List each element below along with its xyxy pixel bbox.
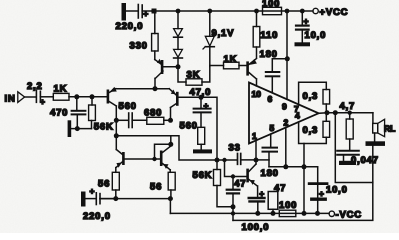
node base loop <box>152 157 156 161</box>
node Q6 collector <box>168 142 173 147</box>
resistor 680 <box>147 117 171 124</box>
svg-text:+: + <box>204 101 209 111</box>
svg-text:3K: 3K <box>187 70 201 81</box>
wire Q4 collector down <box>170 108 172 121</box>
node Q4 base <box>199 95 204 100</box>
svg-text:IN: IN <box>5 94 16 105</box>
svg-text:1: 1 <box>252 131 257 141</box>
capacitor 47 left <box>227 177 240 207</box>
node input 56K <box>90 94 95 99</box>
resistor 110 <box>253 13 260 58</box>
node x304 bus <box>302 211 307 216</box>
capacitor 560 series <box>116 113 147 128</box>
node output 0,3 <box>325 110 330 115</box>
svg-text:2,2: 2,2 <box>27 81 43 92</box>
svg-text:10,0: 10,0 <box>326 185 348 196</box>
wire pin2 node line <box>269 166 318 168</box>
svg-text:10: 10 <box>252 89 262 99</box>
wire output-emitter node <box>100 198 170 200</box>
resistor 56K middle <box>214 160 234 207</box>
svg-text:56K: 56K <box>193 170 213 181</box>
bus -VCC <box>170 212 329 214</box>
node 470 ground <box>75 126 80 131</box>
svg-text:0,3: 0,3 <box>303 125 319 136</box>
diode D2 <box>174 49 183 66</box>
svg-text:1K: 1K <box>54 84 68 95</box>
wire y136 line <box>116 136 217 160</box>
capacitor 2,2 <box>36 91 53 107</box>
capacitor C1 220,0 top-left <box>126 5 152 19</box>
capacitor 10,0 top-right <box>296 14 309 43</box>
op-amp U1 K174UN7 triangle <box>249 83 319 144</box>
transistor Q4 input pair right <box>169 89 201 108</box>
node top rail x302 <box>300 9 305 14</box>
svg-text:0,3: 0,3 <box>303 91 319 102</box>
node feedback X <box>215 158 220 163</box>
capacitor 10,0 bottom right <box>309 167 327 214</box>
resistor 47 right <box>268 192 278 214</box>
svg-text:180: 180 <box>260 49 278 60</box>
wire tail line <box>116 88 169 90</box>
node y136 left <box>114 133 119 138</box>
node output x335.5 <box>333 110 338 115</box>
transistor Q6 output right <box>160 146 171 172</box>
svg-text:330: 330 <box>130 41 148 52</box>
ground (under 10,0 top) <box>295 42 311 46</box>
svg-text:+: + <box>259 189 264 199</box>
svg-text:56: 56 <box>150 182 162 193</box>
resistor 4,7 <box>346 113 353 150</box>
node top rail x154 <box>152 9 157 14</box>
svg-text:100: 100 <box>262 0 280 10</box>
wire Q3 collector vertical <box>115 106 117 150</box>
node 560/680 left <box>114 118 119 123</box>
node top rail x256.5 <box>254 9 259 14</box>
resistor 100 top <box>263 7 282 14</box>
svg-text:470: 470 <box>50 108 68 119</box>
resistor 56 left <box>112 172 119 198</box>
node bus crossing <box>231 211 235 215</box>
node pin2 <box>283 164 288 169</box>
wire pin9 vertical <box>286 13 288 99</box>
svg-text:RL: RL <box>384 124 395 134</box>
resistor 330 <box>152 13 159 60</box>
wire top rail <box>152 10 313 12</box>
node 56L bottom <box>113 196 118 201</box>
speaker RL <box>373 113 385 142</box>
svg-text:2: 2 <box>284 118 289 128</box>
capacitor 0,047 <box>337 151 359 161</box>
capacitor 220,0 bottom <box>86 186 116 205</box>
transistor Q2 driver <box>246 59 257 86</box>
resistor 56K left <box>89 97 96 129</box>
svg-text:56: 56 <box>98 179 110 190</box>
wire node to bus corner <box>169 199 171 214</box>
svg-text:47: 47 <box>274 183 286 194</box>
node y160 x224.5 <box>222 158 226 162</box>
node tail T1 <box>153 86 158 91</box>
ground (under 0,047) <box>339 161 356 165</box>
capacitor 100,0 <box>249 189 265 214</box>
svg-text:100: 100 <box>279 200 297 211</box>
svg-text:+: + <box>143 9 148 19</box>
svg-text:220,0: 220,0 <box>116 21 144 32</box>
wire pin1/Q7 to pin5 node <box>256 159 269 161</box>
resistor 1K (to Q4) <box>210 62 247 69</box>
ground (under 560) <box>193 149 212 153</box>
resistor 56 right <box>168 172 175 198</box>
wire output to speaker-return jog <box>335 113 373 183</box>
node top rail x287 <box>285 9 290 14</box>
wire Q4 base to feedback node <box>201 97 217 160</box>
svg-text:+: + <box>304 16 309 26</box>
transistor Q1 PNP (330 leg) <box>155 59 178 89</box>
svg-text:4,7: 4,7 <box>340 101 356 112</box>
svg-text:33: 33 <box>229 142 241 153</box>
terminal +VCC <box>313 8 318 13</box>
capacitor 47,0 <box>194 97 211 127</box>
node 56R bottom <box>168 196 173 201</box>
svg-text:+: + <box>90 186 95 196</box>
wire ground link <box>71 128 91 130</box>
pin 4 loop wire + resistor 0,3 bottom <box>299 113 330 144</box>
wire pin2 lead <box>285 127 287 166</box>
wire Q6 base loop <box>155 144 171 159</box>
capacitor 470 <box>72 97 86 129</box>
node 47L tap <box>231 174 235 178</box>
node top rail x178 <box>176 9 181 14</box>
wire Q6 collector branch <box>170 136 172 145</box>
ground (left bar of C1) <box>122 3 127 21</box>
svg-text:1K: 1K <box>224 54 238 65</box>
wire output line <box>319 112 373 115</box>
svg-text:+: + <box>319 189 324 199</box>
pin 7 loop wire + resistor 0,3 top <box>299 82 330 112</box>
wire L to Q7 base <box>225 160 247 177</box>
capacitor 180 top (compensation) <box>266 59 288 93</box>
node diode bottom <box>176 64 181 69</box>
svg-text:47,0: 47,0 <box>190 87 212 98</box>
svg-text:5: 5 <box>270 123 275 133</box>
input terminal IN <box>18 92 36 103</box>
bar under speaker <box>366 141 386 146</box>
svg-text:10,0: 10,0 <box>305 30 327 41</box>
svg-text:9,1V: 9,1V <box>212 28 235 39</box>
svg-text:100,0: 100,0 <box>242 222 270 233</box>
svg-text:180: 180 <box>261 168 279 179</box>
node 47R bus <box>271 211 276 216</box>
wire 47L node to bus and lower line <box>232 207 234 221</box>
svg-text:220,0: 220,0 <box>83 211 111 222</box>
node 10,0 bus <box>315 211 320 216</box>
capacitor 33 <box>218 154 256 165</box>
transistor Q7 <box>246 160 257 197</box>
svg-text:4: 4 <box>295 111 300 121</box>
transistor Q3 input pair left <box>107 87 117 106</box>
transistor Q5 output left <box>116 150 161 173</box>
resistor 3K loop <box>178 67 210 86</box>
node top rail x209.8 <box>207 9 212 14</box>
wire x304 vertical <box>303 144 305 214</box>
svg-text:+: + <box>40 97 45 107</box>
resistor 1K input <box>53 93 107 100</box>
svg-text:560: 560 <box>119 101 137 112</box>
node x304 <box>302 164 307 169</box>
svg-text:9: 9 <box>282 102 287 112</box>
node 100,0 bus <box>255 211 260 216</box>
svg-text:+VCC: +VCC <box>320 7 349 18</box>
node input 470 <box>74 94 79 99</box>
wire pin1 lead <box>255 140 257 160</box>
svg-text:560: 560 <box>180 121 198 132</box>
resistor 560 feedback <box>198 127 205 149</box>
svg-text:110: 110 <box>261 30 279 41</box>
node 680 right <box>168 118 173 123</box>
wire speaker return <box>233 146 373 221</box>
svg-text:56K: 56K <box>94 122 114 133</box>
wire pin5 capacitor 180 mid <box>263 134 278 167</box>
node 47L/56K <box>231 204 236 209</box>
ground (left bar of C 220,0 bottom) <box>81 192 86 207</box>
svg-text:47: 47 <box>234 178 246 189</box>
diode D1 <box>174 13 183 49</box>
svg-text:6: 6 <box>268 94 273 104</box>
svg-text:680: 680 <box>144 108 162 119</box>
ground (left bar) <box>68 120 72 137</box>
zener diode 9,1V <box>203 13 214 67</box>
svg-text:-VCC: -VCC <box>336 210 362 221</box>
resistor 100 bottom <box>279 210 296 216</box>
node 180/287 <box>285 56 290 61</box>
terminal -VCC <box>329 211 334 216</box>
node output 4,7 tap <box>348 111 352 115</box>
node pin1/Q7 collector <box>254 158 259 163</box>
